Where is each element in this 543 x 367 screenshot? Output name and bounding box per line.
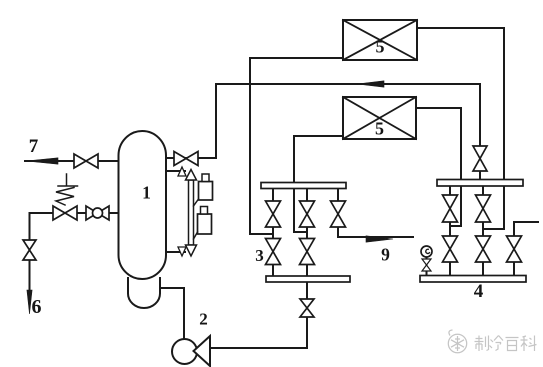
drain valve (vertical) on line 6	[23, 240, 36, 260]
wire: manifold 3 left column	[272, 188, 274, 276]
pump 2 outlet cone	[194, 336, 211, 366]
manifold 3 top header bar	[261, 183, 346, 189]
wire: top condenser 5 left line down to manifold 3 left column	[250, 58, 343, 234]
upper stub arrowhead	[178, 167, 186, 176]
float switch upper connector	[194, 199, 199, 206]
svg-text:6: 6	[32, 296, 42, 318]
vessel 1 (low pressure receiver)	[119, 131, 167, 279]
wire: manifold 4 left column	[449, 186, 451, 276]
wire: top condenser 5 right line down to manifold 4 middle column	[417, 28, 504, 229]
wire: lower condenser 5 left line down to manifold 3 middle column	[294, 136, 343, 232]
wire: level gauge upper stub	[166, 170, 185, 172]
wire: pressure gauge stem on manifold 4	[426, 257, 428, 275]
lower stub arrowhead	[178, 247, 186, 256]
pressure gauge small valve	[422, 259, 431, 271]
valve above manifold 4 top header	[473, 146, 487, 171]
float switch lower cap	[201, 207, 208, 215]
manifold 4 right column valve	[507, 236, 522, 262]
arrow 9 (solid, pointing right)	[366, 236, 393, 242]
globe shut-off valve (circle type) on vessel left	[86, 206, 109, 220]
wire: line 7 from valve to vessel dome	[25, 160, 121, 162]
svg-text:2: 2	[199, 310, 208, 329]
svg-text:5: 5	[376, 37, 385, 57]
wire: level gauge lower stub	[166, 251, 185, 253]
wire: lower condenser 5 right line down to manifold 4 left column	[416, 108, 461, 226]
watermark logo circle with snowflake	[448, 330, 466, 353]
valve on line 7	[74, 154, 98, 168]
vessel 1 bottom sump cylinder	[128, 278, 160, 308]
manifold 4 middle column lower valve	[476, 236, 491, 262]
level gauge column bottom taper	[186, 245, 197, 256]
safety relief valve (with spring) on vessel left	[53, 206, 77, 220]
wire: relief line from vessel left to drain, down to arrow 6	[30, 213, 119, 291]
manifold 3 bottom header bar	[266, 276, 350, 282]
manifold 4 bottom header bar	[420, 276, 526, 283]
svg-text:9: 9	[381, 245, 390, 265]
arrow 6 (solid, pointing down)	[27, 290, 32, 314]
wire: pump discharge line	[210, 347, 307, 349]
float switch upper body	[199, 182, 213, 201]
float switch lower body	[198, 214, 212, 234]
manifold 4 top header bar	[437, 180, 523, 187]
condenser 5 (top crossed box)	[343, 20, 417, 60]
float switch upper cap	[202, 174, 209, 182]
valve below manifold 3 on pump line	[300, 299, 314, 317]
svg-text:3: 3	[255, 246, 264, 265]
svg-text:1: 1	[142, 183, 151, 203]
condenser 5 (lower crossed box)	[343, 97, 416, 139]
float switch lower connector	[194, 232, 198, 239]
manifold 3 middle column lower valve	[300, 239, 315, 265]
svg-text:4: 4	[474, 281, 484, 302]
arrow 7 (solid, pointing left)	[26, 158, 58, 164]
spring of relief valve	[56, 174, 78, 205]
manifold 3 right column valve	[331, 201, 346, 227]
svg-text:5: 5	[375, 119, 384, 139]
manifold 4 left column lower valve	[443, 236, 458, 262]
manifold 4 middle column upper valve	[476, 195, 491, 222]
wire: manifold 4 middle column	[482, 186, 484, 276]
watermark text 制冷百科	[475, 336, 537, 352]
svg-text:7: 7	[29, 136, 39, 157]
wire: manifold 3 bottom outlet down to pump discharge line	[306, 282, 308, 348]
pressure gauge on manifold 4	[421, 246, 432, 257]
wire: manifold 3 right column to arrow 9	[338, 188, 413, 237]
manifold 3 left column upper valve	[266, 201, 281, 227]
wire: vessel top outlet up and across to manifold 4 (hot gas line)	[166, 84, 480, 179]
manifold 3 left column lower valve	[266, 239, 281, 265]
valve at vessel top outlet	[174, 152, 198, 166]
level gauge column on vessel right	[189, 180, 194, 245]
arrow on return line (solid, pointing left)	[357, 81, 384, 87]
manifold 4 left column upper valve	[443, 195, 458, 222]
level gauge column top taper	[186, 170, 197, 181]
wire: vessel bottom outlet to pump suction	[160, 288, 184, 340]
wire: manifold 4 right column and stub to right edge	[514, 222, 538, 276]
wire: manifold 3 middle column	[306, 188, 308, 276]
pump 2 (circle body)	[172, 339, 197, 364]
manifold 3 middle column upper valve	[300, 201, 315, 227]
